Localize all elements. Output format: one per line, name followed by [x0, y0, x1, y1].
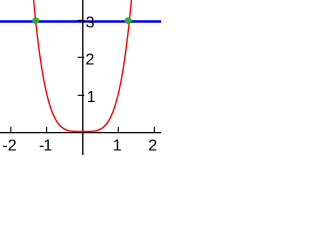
svg-text:2: 2	[86, 51, 95, 68]
svg-text:1: 1	[43, 138, 52, 155]
svg-text:1: 1	[87, 89, 96, 106]
svg-text:2: 2	[148, 138, 157, 155]
svg-text:2: 2	[8, 138, 17, 155]
svg-text:1: 1	[113, 138, 122, 155]
svg-text:3: 3	[86, 14, 95, 31]
